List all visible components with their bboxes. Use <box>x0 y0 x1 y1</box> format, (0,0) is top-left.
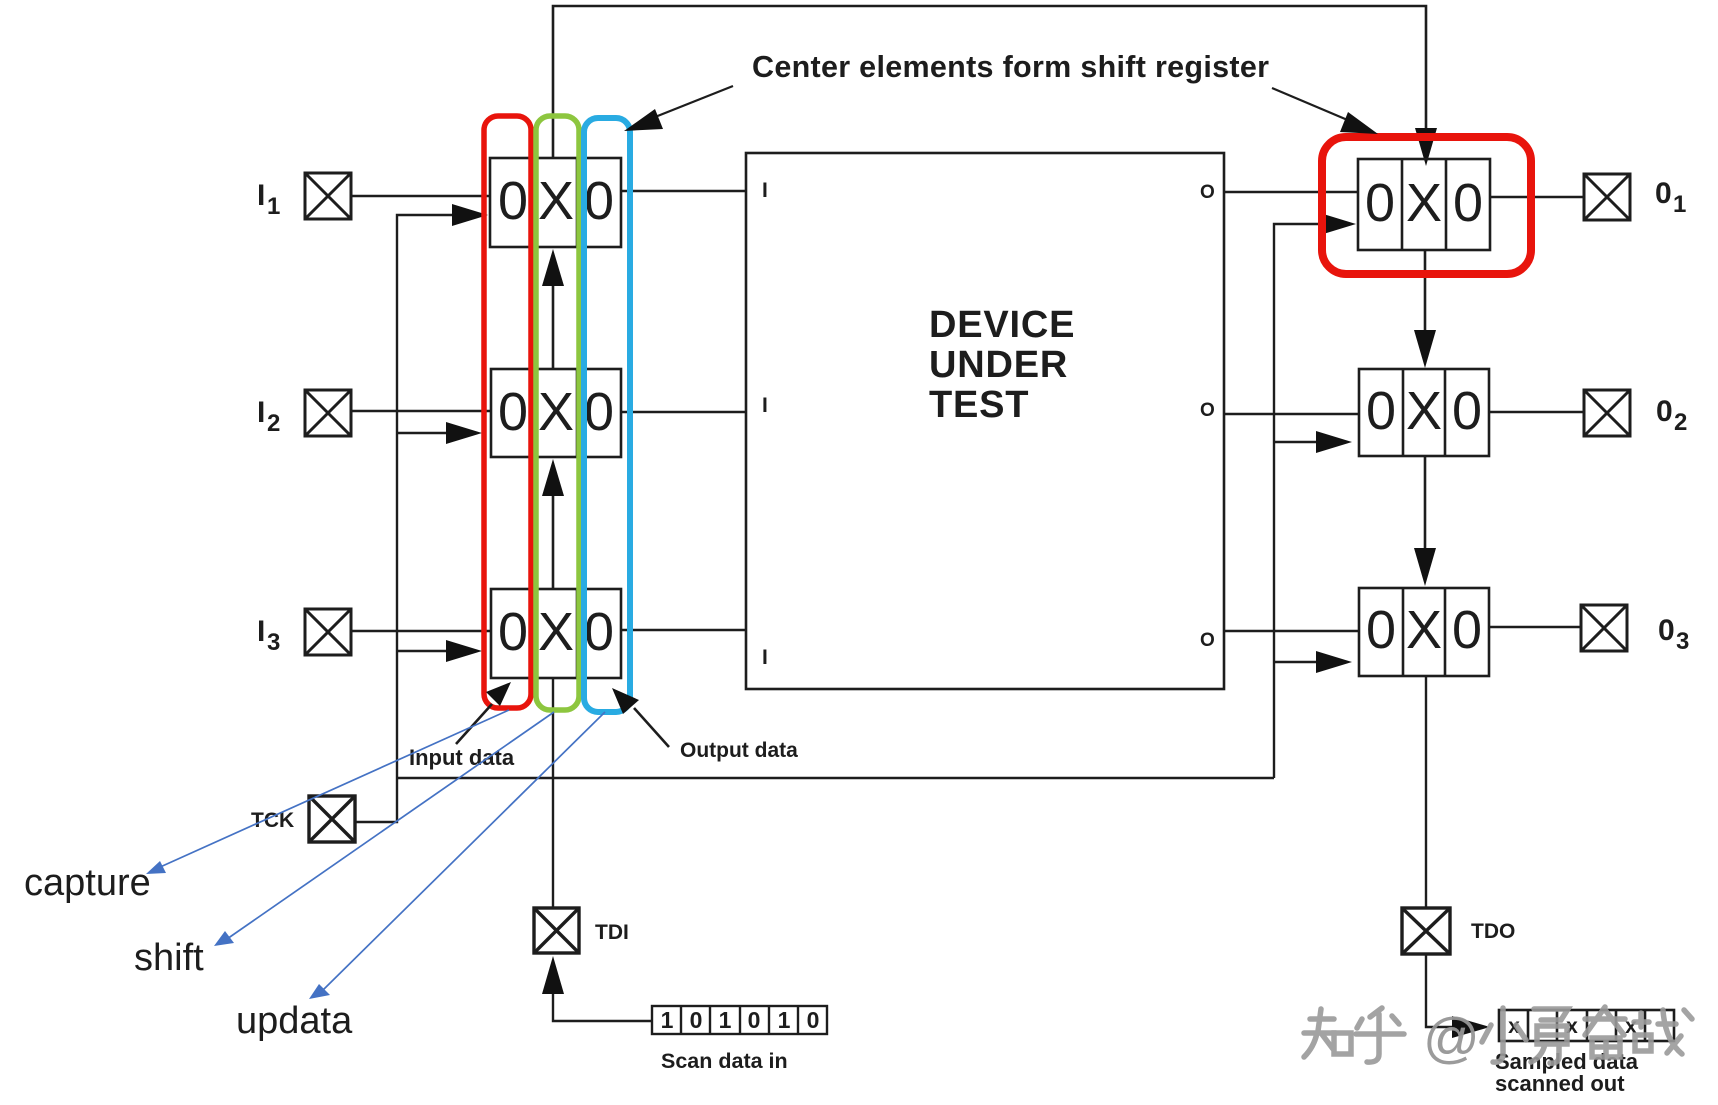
svg-text:I: I <box>762 394 768 417</box>
svg-text:2: 2 <box>267 410 280 437</box>
label I2 <box>257 396 280 437</box>
svg-text:DEVICE: DEVICE <box>929 304 1075 346</box>
wire arrow TCK into row2 register <box>446 422 482 444</box>
svg-text:1: 1 <box>661 1007 674 1033</box>
svg-text:@: @ <box>1423 1006 1480 1069</box>
svg-text:0: 0 <box>498 602 528 662</box>
register cell row1 left (0|X|0) <box>490 158 621 247</box>
svg-text:0: 0 <box>748 1007 761 1033</box>
wire register row2 to DUT <box>621 411 746 413</box>
svg-text:0: 0 <box>498 382 528 442</box>
svg-text:0: 0 <box>584 382 614 442</box>
svg-text:X: X <box>538 602 574 662</box>
highlight shift column (green rounded rect) <box>536 116 579 710</box>
svg-text:1: 1 <box>778 1007 791 1033</box>
pad TDO <box>1402 908 1450 954</box>
wire arrow update into right row3 register <box>1316 651 1352 673</box>
wire TDI up to row3 register <box>552 678 554 908</box>
svg-text:0: 0 <box>1656 395 1673 428</box>
svg-text:X: X <box>1406 173 1442 233</box>
svg-text:1: 1 <box>719 1007 732 1033</box>
label O1 <box>1655 177 1686 218</box>
svg-text:TDO: TDO <box>1471 920 1515 943</box>
svg-text:scanned out: scanned out <box>1495 1071 1625 1096</box>
highlight update column (blue rounded rect) <box>584 118 630 712</box>
wire arrow update into right row2 register <box>1316 431 1352 453</box>
svg-text:O: O <box>1200 182 1215 203</box>
svg-text:2: 2 <box>1674 409 1687 436</box>
wire DUT O2 to register <box>1224 413 1359 415</box>
svg-text:0: 0 <box>1366 600 1396 660</box>
svg-text:I: I <box>257 179 265 212</box>
wire shift arrow row2 to row3 right <box>1414 456 1436 586</box>
pad O2 <box>1584 390 1630 436</box>
svg-text:TCK: TCK <box>251 809 294 832</box>
svg-text:O: O <box>1200 400 1215 421</box>
svg-text:updata: updata <box>236 1000 353 1042</box>
annotation arrow capture to red column <box>146 710 509 874</box>
svg-text:X: X <box>538 382 574 442</box>
svg-text:1: 1 <box>267 193 280 220</box>
wire DUT O3 to register <box>1224 630 1359 632</box>
svg-text:shift: shift <box>134 937 204 979</box>
node DEVICE UNDER TEST <box>746 153 1224 689</box>
wire register row2 to pad O2 <box>1489 411 1584 413</box>
watermark zhihu <box>1304 1007 1692 1063</box>
pad I1 <box>305 173 351 219</box>
register cell row2 left (0|X|0) <box>491 369 621 457</box>
register cell row3 left (0|X|0) <box>491 589 621 678</box>
svg-text:Scan data in: Scan data in <box>661 1049 788 1073</box>
svg-text:0: 0 <box>1452 381 1482 441</box>
svg-text:O: O <box>1200 630 1215 651</box>
svg-text:0: 0 <box>807 1007 820 1033</box>
wire arrow update into right row1 register <box>1320 213 1356 235</box>
svg-text:0: 0 <box>498 171 528 231</box>
svg-text:3: 3 <box>267 629 280 656</box>
wire shift arrow row2 to row1 <box>542 249 564 369</box>
wire top shift path from left column over to right column <box>553 6 1426 158</box>
svg-text:I: I <box>257 615 265 648</box>
svg-text:1: 1 <box>1673 191 1686 218</box>
svg-text:I: I <box>762 179 768 202</box>
wire I2 pad to register <box>351 410 491 412</box>
highlight capture column (red rounded rect) <box>484 116 531 708</box>
svg-text:0: 0 <box>1453 173 1483 233</box>
wire arrow into top-right register <box>1415 128 1437 166</box>
svg-text:capture: capture <box>24 862 151 904</box>
svg-text:0: 0 <box>1365 173 1395 233</box>
svg-text:0: 0 <box>584 602 614 662</box>
svg-text:0: 0 <box>1452 600 1482 660</box>
wire TCK net with clock distribution <box>355 215 1320 822</box>
svg-text:I: I <box>257 396 265 429</box>
wire register row3 to pad O3 <box>1489 626 1581 628</box>
svg-text:0: 0 <box>1366 381 1396 441</box>
svg-text:I: I <box>762 646 768 669</box>
label Sampled data scanned out <box>1495 1049 1639 1096</box>
wire register row3 to DUT <box>621 629 746 631</box>
svg-text:Output data: Output data <box>680 739 798 762</box>
wire arrow TCK into row1 register <box>452 204 488 226</box>
svg-text:TEST: TEST <box>929 384 1029 426</box>
svg-text:0: 0 <box>584 171 614 231</box>
register cell row2 right (0|X|0) <box>1359 369 1489 456</box>
wire shift arrow row3 to row2 <box>542 459 564 589</box>
wire TDO down to scan-out register <box>1426 954 1490 1038</box>
svg-text:0: 0 <box>690 1007 703 1033</box>
highlight top-right register (red rounded rect) <box>1322 137 1531 274</box>
pad O1 <box>1584 174 1630 220</box>
annotation arrow updata to blue column <box>309 712 605 999</box>
wire register row1 to pad O1 <box>1490 196 1584 198</box>
callout arrow left from center-elements label <box>624 86 733 131</box>
register scan data in (1 0 1 0 1 0) <box>652 1006 827 1034</box>
svg-text:UNDER: UNDER <box>929 344 1068 386</box>
pad I3 <box>305 609 351 655</box>
callout arrow Input data to register bottom <box>456 682 511 744</box>
svg-text:Center elements form shift reg: Center elements form shift register <box>752 50 1269 84</box>
pad TCK <box>309 796 355 842</box>
label I3 <box>257 615 280 656</box>
wire register row1 to DUT <box>621 190 746 192</box>
label O3 <box>1658 614 1689 655</box>
wire arrow TCK into row3 register <box>446 640 482 662</box>
wire I3 pad to register <box>351 630 491 632</box>
svg-text:X: X <box>538 171 574 231</box>
svg-text:3: 3 <box>1676 628 1689 655</box>
svg-text:TDI: TDI <box>595 921 629 944</box>
label O2 <box>1656 395 1687 436</box>
svg-text:0: 0 <box>1658 614 1675 647</box>
wire DUT O1 to register <box>1224 191 1358 193</box>
register cell row1 right (0|X|0) <box>1358 159 1490 250</box>
pad O3 <box>1581 605 1627 651</box>
pad TDI <box>534 908 579 953</box>
callout arrow Output data to register bottom <box>612 688 669 747</box>
callout arrow right from center-elements label <box>1272 88 1378 134</box>
label I1 <box>257 179 280 220</box>
wire shift arrow row1 to row2 right <box>1414 250 1436 368</box>
wire I1 pad to register <box>351 195 490 197</box>
annotation arrow shift to green column <box>214 712 554 946</box>
svg-text:0: 0 <box>1655 177 1672 210</box>
svg-text:X: X <box>1406 600 1442 660</box>
register cell row3 right (0|X|0) <box>1359 588 1489 676</box>
register sampled data scanned out <box>1499 1010 1674 1041</box>
wire scan-in to TDI <box>542 956 652 1021</box>
svg-text:X: X <box>1406 381 1442 441</box>
pad I2 <box>305 390 351 436</box>
wire register row3 down to TDO <box>1425 676 1427 908</box>
